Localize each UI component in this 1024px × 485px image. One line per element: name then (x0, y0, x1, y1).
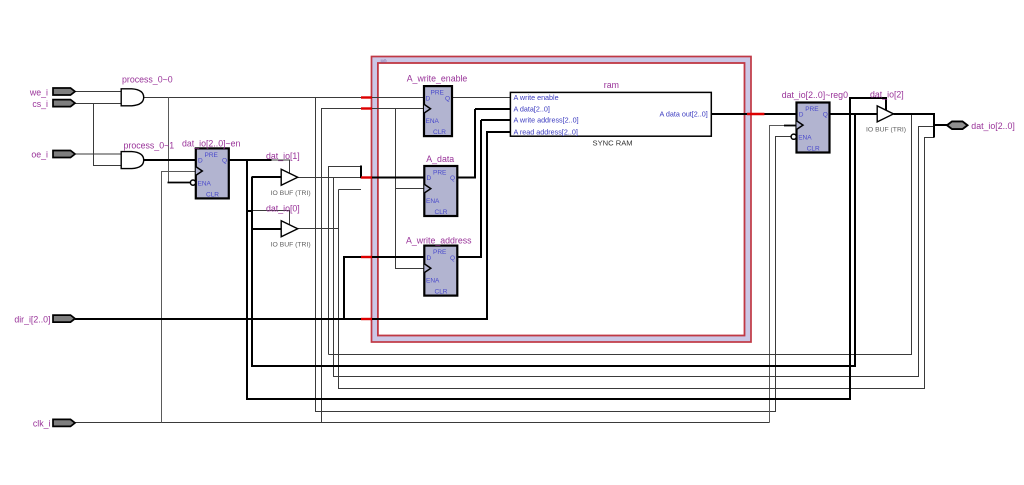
input pin dir_i[2..0] (53, 315, 75, 322)
svg-text:D: D (426, 95, 431, 102)
svg-text:D: D (427, 175, 432, 182)
svg-text:CLR: CLR (807, 146, 820, 153)
svg-text:uo: uo (381, 59, 387, 65)
red crossing segments (361, 98, 764, 320)
wire cs_i to AND gate (75, 103, 121, 105)
svg-text:ENA: ENA (426, 198, 440, 205)
svg-text:PRE: PRE (433, 249, 447, 256)
group box ram (red hierarchy border) (372, 57, 752, 343)
wire process_0~0 branch to dat_io en FF ENA (168, 98, 170, 183)
flip-flop dat_io[2..0]~reg0 (791, 103, 829, 153)
svg-text:A_write_address: A_write_address (406, 236, 472, 246)
svg-text:ENA: ENA (798, 135, 812, 142)
svg-text:CLR: CLR (206, 192, 219, 199)
svg-text:process_0~1: process_0~1 (124, 140, 175, 150)
svg-text:A write address[2..0]: A write address[2..0] (514, 116, 579, 125)
red crossing process_0~0 (361, 96, 372, 98)
svg-text:IO BUF (TRI): IO BUF (TRI) (271, 190, 311, 197)
input pin oe_i (53, 151, 75, 158)
svg-text:PRE: PRE (431, 90, 445, 97)
svg-text:PRE: PRE (805, 106, 819, 113)
wire pad0 net buffer0 output routing (298, 138, 934, 389)
input pin clk_i (53, 419, 75, 426)
svg-text:ram: ram (604, 80, 619, 90)
wire clk vertical to A_data and A_write_address clocks (396, 109, 425, 269)
wire A_write_enable Q to ram write enable (452, 97, 510, 99)
svg-text:PRE: PRE (433, 169, 447, 176)
svg-text:PRE: PRE (205, 152, 219, 159)
svg-text:SYNC RAM: SYNC RAM (593, 139, 633, 148)
red crossing clk (361, 107, 372, 109)
svg-text:dir_i[2..0]: dir_i[2..0] (14, 314, 50, 324)
wire we_i to AND gate (75, 91, 121, 93)
wire bus en net V1 down to OE routing line (247, 98, 886, 399)
svg-text:dat_io[2..0]: dat_io[2..0] (971, 121, 1015, 131)
svg-text:Q: Q (450, 175, 455, 182)
wire bus en link V1-V2 (246, 210, 252, 212)
wire clk_i main (75, 422, 770, 424)
svg-text:A write enable: A write enable (514, 93, 559, 102)
svg-text:oe_i: oe_i (31, 150, 48, 160)
wire bus A_write_address Q to ram write address (457, 120, 510, 257)
red crossing A_data D (361, 176, 372, 178)
svg-text:CLR: CLR (435, 209, 448, 216)
input pin we_i (53, 88, 75, 95)
svg-text:IO BUF (TRI): IO BUF (TRI) (271, 241, 311, 248)
wire clk branch to reg0 clock (770, 126, 786, 423)
wire bus ram data out to reg0 D (711, 113, 796, 115)
svg-text:we_i: we_i (29, 87, 48, 97)
wire net process_0~0 to A_write_enable D (144, 97, 424, 99)
svg-text:ENA: ENA (198, 181, 212, 188)
svg-text:dat_io[2]: dat_io[2] (870, 89, 904, 99)
red crossing A_write_address D (361, 256, 372, 258)
svg-text:A_data: A_data (426, 154, 454, 164)
svg-text:clk_i: clk_i (33, 419, 51, 429)
svg-text:A read address[2..0]: A read address[2..0] (514, 127, 578, 136)
svg-text:Q: Q (450, 255, 455, 262)
svg-text:ENA: ENA (426, 278, 440, 285)
wire bus dir_i to ram read address (75, 131, 510, 319)
and-gate process_0~0 (121, 89, 144, 106)
wire cs_i branch to process_0~1 input (94, 104, 122, 166)
svg-text:D: D (427, 255, 432, 262)
svg-text:A_write_enable: A_write_enable (407, 74, 468, 84)
wire oe_i to AND gate (75, 153, 121, 155)
wire pad1 feedback vertical right (329, 114, 912, 355)
flip-flop A_write_address (424, 246, 457, 296)
wire buffer1 output to A_data D (298, 177, 361, 179)
svg-text:ENA: ENA (426, 118, 440, 125)
wire en OE drop to IO BUF dat_io[1] (272, 160, 290, 174)
svg-text:Q: Q (445, 95, 450, 102)
svg-text:dat_io[1]: dat_io[1] (266, 151, 300, 161)
wire pad1 net jog to A_data D feed (329, 127, 935, 377)
wire bus dir branch to A_write_address D (344, 257, 424, 320)
ram block SYNC RAM (510, 92, 711, 136)
svg-text:process_0~0: process_0~0 (122, 75, 173, 85)
svg-text:CLR: CLR (433, 129, 446, 136)
wire clk branch to en FF clock (162, 172, 196, 423)
tri-state buffer dat_io[0] (281, 221, 298, 237)
svg-text:dat_io[2..0]~reg0: dat_io[2..0]~reg0 (782, 90, 848, 100)
svg-text:D: D (198, 158, 203, 165)
bidir pin dat_io[2..0] (947, 121, 968, 129)
wire clk branch into ram box FF clocks (322, 109, 425, 423)
wire net process_0~1 to FF D (144, 159, 196, 161)
flip-flop dat_io[2..0]~en (190, 148, 228, 198)
red crossing ram out (747, 113, 764, 115)
svg-text:A data out[2..0]: A data out[2..0] (659, 110, 707, 119)
wire bus en FF Q output (229, 159, 272, 161)
svg-text:Q: Q (222, 158, 227, 165)
tri-state buffer dat_io[1] (281, 169, 298, 185)
wire process_0~0 branch down to reg0 ENA via bottom routing (316, 98, 792, 412)
wire bus buffer2 output to pad (894, 113, 948, 138)
svg-text:CLR: CLR (435, 289, 448, 296)
svg-text:A data[2..0]: A data[2..0] (514, 104, 550, 113)
wire bus stub A_data D drop (361, 166, 424, 179)
wire en OE drop to IO BUF dat_io[0] (252, 211, 290, 226)
svg-text:dat_io[0]: dat_io[0] (266, 204, 300, 214)
tri-state buffer dat_io[2] (877, 106, 893, 122)
flip-flop A_write_enable (424, 86, 452, 136)
input pin cs_i (53, 100, 75, 107)
svg-text:cs_i: cs_i (32, 99, 48, 109)
svg-text:dat_io[2..0]~en: dat_io[2..0]~en (182, 139, 241, 149)
wire bus A_data Q to ram data (457, 109, 510, 178)
svg-text:IO BUF (TRI): IO BUF (TRI) (866, 126, 906, 133)
svg-text:Q: Q (823, 112, 828, 119)
red crossing dir (361, 318, 372, 320)
and-gate process_0~1 (121, 152, 144, 169)
flip-flop A_data (424, 166, 457, 216)
wire bus reg0 Q to buffer inputs (252, 113, 877, 366)
svg-text:D: D (799, 112, 804, 119)
